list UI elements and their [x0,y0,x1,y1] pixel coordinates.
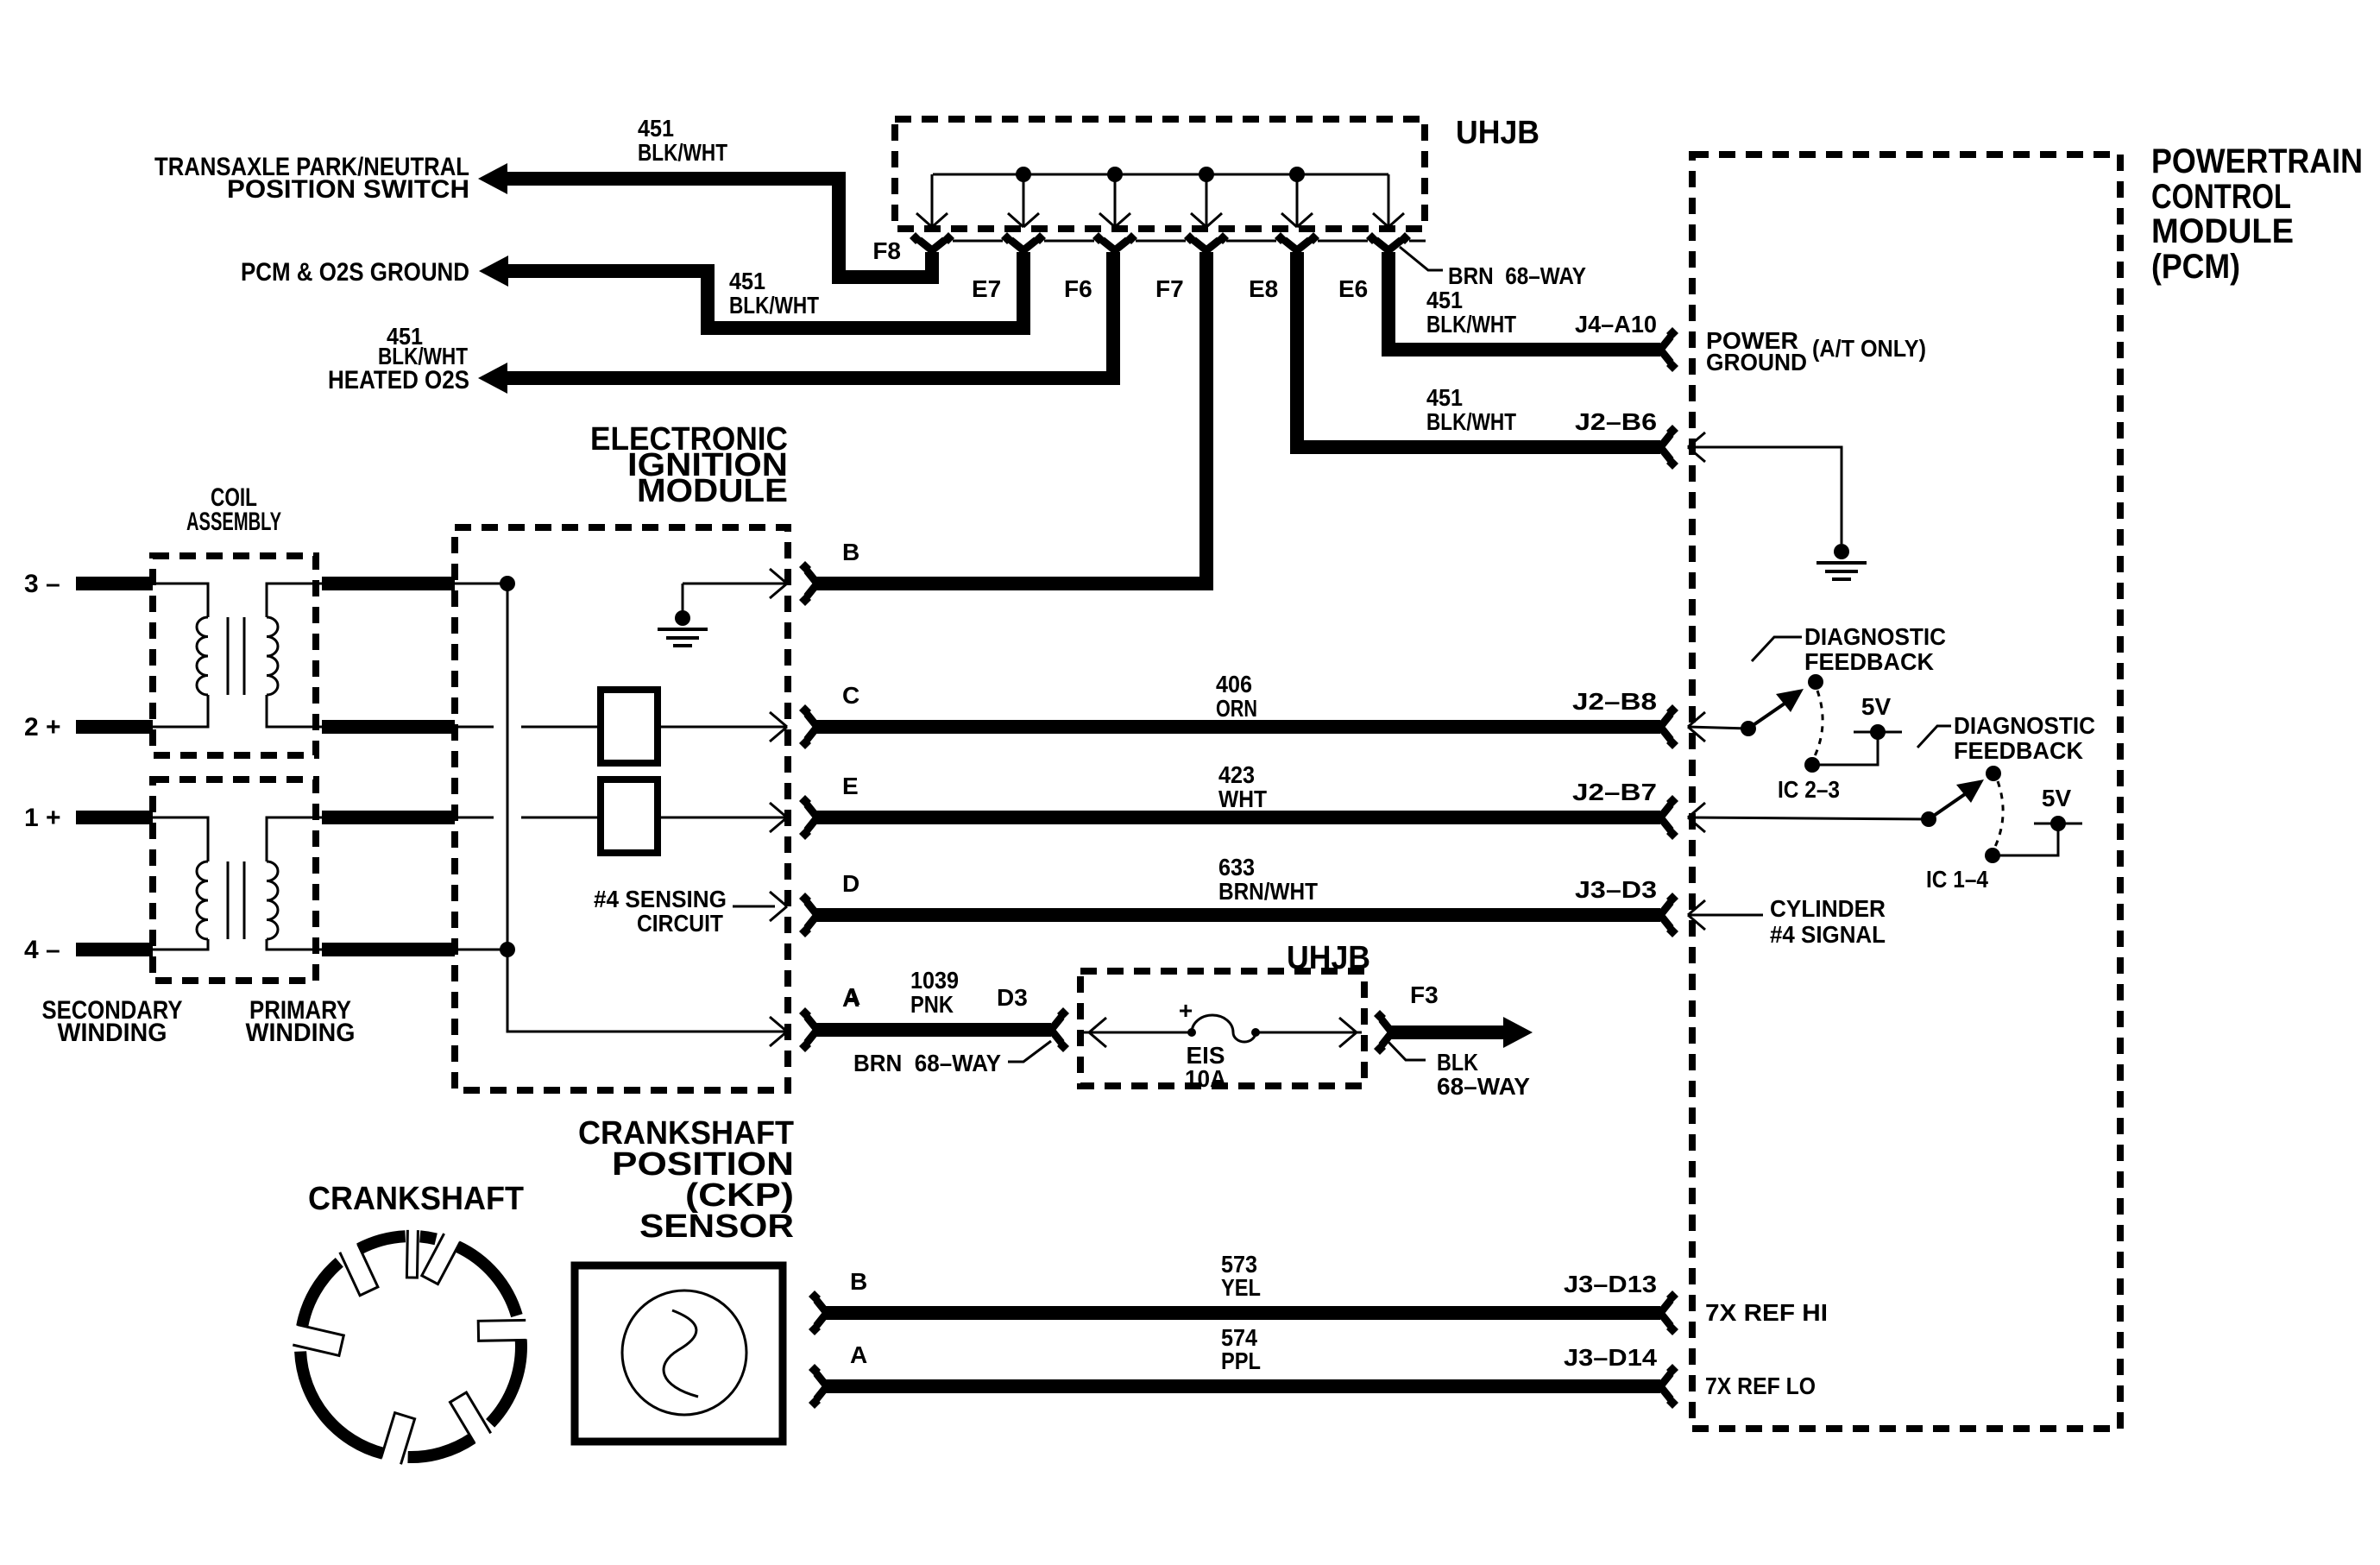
svg-text:WINDING: WINDING [58,1019,167,1047]
connector terminal F7 [1184,232,1229,250]
svg-text:#4 SENSING: #4 SENSING [594,886,727,912]
svg-text:UHJB: UHJB [1456,115,1539,151]
switch IC 2-3 pivot [1741,721,1756,736]
svg-text:HEATED O2S: HEATED O2S [328,366,469,394]
label IC 1-4 [1926,866,1988,893]
pin label B (EIM) [842,539,859,565]
pin label A (EIM) [842,985,859,1012]
connector terminal E6 [1366,232,1411,250]
svg-text:451: 451 [1426,384,1463,411]
label 7X REF HI [1705,1299,1828,1326]
pin label B (CKP) [850,1268,867,1295]
label D3 (UHJB cavity) [997,984,1028,1011]
connector dashed line BRN 68-WAY [953,240,1426,243]
svg-text:CIRCUIT: CIRCUIT [637,910,723,937]
switch IC 1-4 arm [1929,779,1984,819]
svg-text:5V: 5V [1861,693,1892,720]
svg-text:2 +: 2 + [24,713,61,741]
svg-text:BRN/WHT: BRN/WHT [1218,878,1318,905]
connector terminal E8 [1275,232,1319,250]
svg-text:B: B [850,1268,867,1295]
coil assembly dashed box (coil 1) [153,556,316,755]
svg-text:1039: 1039 [910,967,959,994]
label DIAGNOSTIC FEEDBACK (IC 2-3) [1804,623,1946,675]
pin label A (CKP) [850,1341,867,1368]
arrow at EIM pin E [770,803,787,832]
wire stub 4- left [76,943,153,956]
svg-text:J2–B7: J2–B7 [1572,779,1657,805]
transformer T2 primary winding [267,817,322,950]
powertrain control module PCM dashed box [1692,155,2120,1429]
wire driver 2 to pin E [658,817,785,819]
svg-text:J3–D3: J3–D3 [1575,876,1657,903]
terminal EIM pin C [799,704,817,749]
label CRANKSHAFT [308,1181,524,1217]
svg-text:633: 633 [1218,854,1255,880]
coil assembly dashed box (coil 2) [153,779,316,981]
switch IC 1-4 upper contact [1986,766,2001,781]
pin label F8 [872,237,901,264]
arrow at EIM pin D [770,892,787,921]
node junction on 3- row [500,576,515,591]
pin label J2-B8 [1572,688,1657,715]
wire 633 BRN/WHT D to J3-D3 [815,908,1660,922]
transformer T2 core [228,861,244,939]
wire 451 BLK/WHT E8 to J2-B6 [1297,252,1660,447]
label 574 PPL [1221,1324,1261,1374]
transformer T2 secondary winding [153,817,208,950]
label POWERTRAIN CONTROL MODULE (PCM) [2151,142,2363,286]
label SECONDARY WINDING [42,996,183,1047]
junction block UHJB (fuse) dashed box [1080,971,1364,1086]
svg-text:68–WAY: 68–WAY [1437,1073,1530,1100]
arrow into PCM at J2-B8 [1688,712,1705,741]
label 1039 PNK [910,967,959,1018]
svg-text:CRANKSHAFT: CRANKSHAFT [308,1181,524,1217]
label + (fuse) [1179,997,1193,1024]
switch IC 1-4 pivot [1921,811,1936,827]
wire to diagnostic switch IC 2-3 [1688,727,1748,729]
svg-text:(A/T ONLY): (A/T ONLY) [1812,335,1926,362]
arrowhead to transaxle park/neutral position switch [478,163,507,194]
label COIL ASSEMBLY [186,483,281,536]
wire EIM internal ground to pin B [683,584,785,610]
arrowhead F3 output [1503,1017,1533,1048]
terminal EIM pin D [799,893,817,937]
label terminal 1 + [24,804,61,832]
arrow at EIM pin C [770,712,787,741]
leader to BLK 68-WAY label [1386,1039,1426,1060]
switch IC 2-3 dashed arc [1814,691,1823,758]
label 451 BLK/WHT (heated o2s wire) [378,323,468,369]
label POWER GROUND [1706,327,1807,375]
leader diagnostic feedback (IC 2-3) [1752,637,1802,661]
svg-text:4 –: 4 – [24,936,60,964]
svg-text:F7: F7 [1155,275,1184,302]
arrow at EIM pin B [770,569,787,598]
svg-text:GROUND: GROUND [1706,349,1807,375]
wire stub 3- left [76,577,153,590]
svg-text:BLK: BLK [1437,1049,1478,1076]
svg-text:7X REF LO: 7X REF LO [1705,1373,1816,1399]
svg-text:F3: F3 [1410,981,1439,1008]
svg-text:J3–D13: J3–D13 [1564,1271,1657,1297]
wire driver 1 to pin C [658,726,785,729]
wire stub 3- right [322,577,455,590]
crankshaft reluctor ring [293,1230,526,1464]
switch IC 2-3 arm [1748,689,1804,729]
svg-text:406: 406 [1216,671,1252,697]
terminal CKP pin A [809,1364,827,1409]
leader cylinder #4 signal [1688,914,1763,917]
pin label E (EIM) [842,773,859,799]
terminal D3 at UHJB [1051,1007,1069,1052]
svg-text:BRN 68–WAY: BRN 68–WAY [853,1050,1001,1076]
svg-text:A: A [843,983,860,1010]
svg-text:B: B [842,539,859,565]
wire - UHJB internal bus [933,174,1388,176]
ground (PCM internal) [1816,544,1867,579]
crankshaft position CKP sensor box [575,1265,783,1442]
pin label J3-D13 [1564,1271,1657,1297]
svg-text:1 +: 1 + [24,804,61,832]
wire 451 BLK/WHT E6 to J4-A10 [1388,252,1660,350]
wire 406 ORN C to J2-B8 [815,720,1660,734]
wire lower contact to 5V (IC 1-4) [1993,827,2058,855]
svg-text:CYLINDER: CYLINDER [1770,895,1886,922]
label 5V (IC 1-4) [2042,785,2072,811]
label 633 BRN/WHT [1218,854,1318,905]
svg-text:BLK/WHT: BLK/WHT [1426,311,1516,338]
pin label E6 [1338,275,1368,302]
svg-text:J3–D14: J3–D14 [1564,1344,1657,1371]
leader diagnostic feedback (IC 1-4) [1917,726,1951,748]
terminal J2-B7 at PCM [1660,795,1678,840]
terminal J2-B8 at PCM [1660,704,1678,749]
arrowhead to heated O2S [478,363,507,394]
label PRIMARY WINDING [246,996,356,1047]
wire 4- into EIM to bus junction [455,949,507,951]
wire fuse box left lead [1084,1032,1188,1034]
svg-text:MODULE: MODULE [637,473,788,509]
wire 451 BLK/WHT to transaxle switch [506,179,932,277]
connector terminal E7 [1001,232,1046,250]
wire 1039 PNK A to D3 [815,1023,1051,1037]
pin label J3-D14 [1564,1344,1657,1371]
label (A/T ONLY) [1812,335,1926,362]
label 406 ORN [1216,671,1257,722]
svg-text:J2–B8: J2–B8 [1572,688,1657,715]
svg-text:BLK/WHT: BLK/WHT [378,343,468,369]
svg-text:J4–A10: J4–A10 [1575,311,1657,338]
pin label J3-D3 [1575,876,1657,903]
svg-text:(PCM): (PCM) [2151,248,2240,286]
pin label E8 [1249,275,1278,302]
svg-text:PCM & O2S GROUND: PCM & O2S GROUND [241,258,469,287]
arrow into PCM at J2-B6 [1688,432,1705,462]
fuse element EIS 10A [1187,1015,1260,1042]
UHJB bus tap arrow to E7 [1008,167,1039,227]
label TRANSAXLE PARK/NEUTRAL POSITION SWITCH [154,153,469,204]
driver block 2 [601,779,658,853]
label 573 YEL [1221,1251,1261,1301]
label BRN 68-WAY (bottom) [853,1050,1001,1076]
label EIS 10A [1185,1042,1226,1092]
label CRANKSHAFT POSITION (CKP) SENSOR [578,1115,794,1245]
svg-text:3 –: 3 – [24,570,60,598]
wire EIM internal bus vertical [507,584,787,1032]
arrow into fuse box left [1089,1018,1106,1047]
pin label E7 [972,275,1001,302]
svg-text:F6: F6 [1064,275,1092,302]
wire stub 2+ left [76,720,153,734]
pin label C (EIM) [842,682,859,709]
svg-text:FEEDBACK: FEEDBACK [1804,648,1934,675]
5V rail (IC 1-4) [2034,823,2082,825]
svg-text:#4 SIGNAL: #4 SIGNAL [1770,921,1886,948]
wire lower contact to 5V (IC 2-3) [1812,735,1878,765]
wire to diagnostic switch IC 1-4 [1688,817,1929,819]
svg-text:YEL: YEL [1221,1274,1261,1301]
switch IC 1-4 lower contact [1985,848,2000,863]
terminal J3-D13 at PCM [1660,1290,1678,1335]
UHJB bus tap arrow to F7 [1191,167,1222,227]
label CYLINDER #4 SIGNAL [1770,895,1886,948]
svg-text:E7: E7 [972,275,1001,302]
label UHJB (top) [1456,115,1539,151]
svg-text:FEEDBACK: FEEDBACK [1954,737,2083,764]
arrow out fuse box right [1339,1018,1357,1047]
wire 451 BLK/WHT to PCM & O2S ground [507,252,1023,328]
pin label F3 [1410,981,1439,1008]
wire stub 2+ right [322,720,455,734]
svg-text:5V: 5V [2042,785,2072,811]
terminal J3-D14 at PCM [1660,1364,1678,1409]
wire 3- into EIM to bus junction [455,583,507,585]
transformer T1 secondary winding [153,584,208,727]
svg-text:DIAGNOSTIC: DIAGNOSTIC [1804,623,1946,650]
arrowhead to PCM & O2S ground [479,256,508,287]
wire F3 BLK 68-WAY [1390,1025,1503,1039]
node junction on 4- row [500,942,515,957]
label terminal 3 - [24,570,60,598]
svg-text:DIAGNOSTIC: DIAGNOSTIC [1954,712,2095,739]
svg-text:UHJB: UHJB [1287,940,1370,976]
wire stub 1+ left [76,811,153,824]
label 451 BLK/WHT (pcm o2s wire) [729,268,819,319]
UHJB bus tap arrow to F8 [916,174,948,227]
svg-text:PNK: PNK [910,991,954,1018]
label 451 BLK/WHT (J4-A10 wire) [1426,287,1516,338]
svg-text:423: 423 [1218,761,1255,788]
node 5V (IC 1-4) [2050,816,2066,831]
UHJB bus tap arrow to F6 [1099,167,1130,227]
svg-text:IC 1–4: IC 1–4 [1926,866,1988,893]
wire 451 BLK/WHT to heated O2S [506,252,1113,378]
pin label J2-B6 [1575,408,1657,435]
label 451 BLK/WHT (transaxle wire) [638,115,727,166]
svg-text:E6: E6 [1338,275,1368,302]
wire 573 YEL to J3-D13 [825,1306,1660,1320]
terminal F3 at UHJB [1374,1010,1392,1055]
wire stub 4- right [322,943,455,956]
label terminal 4 - [24,936,60,964]
svg-text:D3: D3 [997,984,1028,1011]
arrow into PCM at J3-D3 [1688,900,1705,930]
svg-text:MODULE: MODULE [2151,212,2294,250]
wire 2+ to driver 1 (gap at bus) [455,726,601,729]
svg-text:BLK/WHT: BLK/WHT [1426,408,1516,435]
svg-text:BLK/WHT: BLK/WHT [638,139,727,166]
terminal J4-A10 at PCM [1660,327,1678,372]
svg-text:451: 451 [729,268,765,294]
label 5V (IC 2-3) [1861,693,1892,720]
label IC 2-3 [1778,776,1840,803]
terminal EIM pin E [799,795,817,840]
pin label D (EIM) [842,870,859,897]
label #4 SENSING CIRCUIT [594,886,727,937]
label terminal 2 + [24,713,61,741]
label 423 WHT [1218,761,1267,812]
electronic ignition module dashed box [455,527,788,1090]
CKP sensor squiggle [664,1310,698,1397]
svg-text:+: + [1179,997,1193,1024]
svg-text:E8: E8 [1249,275,1278,302]
svg-text:ORN: ORN [1216,695,1257,722]
label 451 BLK/WHT (J2-B6 wire) [1426,384,1516,435]
svg-text:IC 2–3: IC 2–3 [1778,776,1840,803]
svg-text:POSITION SWITCH: POSITION SWITCH [227,175,469,204]
pin label F7 [1155,275,1184,302]
pin label F6 [1064,275,1092,302]
connector terminal F6 [1092,232,1137,250]
svg-text:ASSEMBLY: ASSEMBLY [186,508,281,536]
label UHJB (fuse box) [1287,940,1370,976]
terminal J3-D3 at PCM [1660,893,1678,937]
5V rail (IC 2-3) [1854,731,1902,734]
wire 451 BLK/WHT F7 to EIM pin B [815,252,1206,584]
svg-text:F8: F8 [872,237,901,264]
switch IC 1-4 dashed arc [1994,781,2003,849]
label HEATED O2S [328,366,469,394]
arrow into PCM at J2-B7 [1688,803,1705,832]
transformer T1 core [228,617,244,695]
svg-text:451: 451 [638,115,674,142]
svg-text:D: D [842,870,859,897]
CKP sensor symbol circle [622,1290,746,1415]
wire stub 1+ right [322,811,455,824]
svg-text:CONTROL: CONTROL [2151,178,2291,216]
transformer T1 primary winding [267,584,322,727]
label BRN 68-WAY (top connector) [1448,262,1586,289]
wire 1+ to driver 2 (gap at bus) [455,817,601,819]
terminal CKP pin B [809,1290,827,1335]
wire 574 PPL to J3-D14 [825,1379,1660,1393]
switch IC 2-3 upper contact [1808,674,1823,690]
label DIAGNOSTIC FEEDBACK (IC 1-4) [1954,712,2095,764]
wire fuse box right lead [1256,1032,1362,1034]
svg-text:J2–B6: J2–B6 [1575,408,1657,435]
terminal J2-B6 at PCM [1660,425,1678,470]
svg-text:BRN 68–WAY: BRN 68–WAY [1448,262,1586,289]
svg-text:BLK/WHT: BLK/WHT [729,292,819,319]
wire J2-B6 to internal ground [1688,447,1842,544]
label PCM & O2S GROUND [241,258,469,287]
svg-text:SENSOR: SENSOR [639,1208,794,1245]
wire 423 WHT E to J2-B7 [815,811,1660,824]
svg-text:C: C [842,682,859,709]
svg-text:E: E [842,773,859,799]
svg-text:10A: 10A [1185,1065,1226,1092]
terminal EIM pin B [799,561,817,606]
svg-text:451: 451 [1426,287,1463,313]
ground (EIM internal) [658,610,708,646]
switch IC 2-3 lower contact [1804,757,1820,773]
connector terminal F8 [910,232,954,250]
pin label J4-A10 [1575,311,1657,338]
svg-text:WINDING: WINDING [246,1019,356,1047]
label ELECTRONIC IGNITION MODULE [590,421,788,509]
pin label J2-B7 [1572,779,1657,805]
svg-text:POWERTRAIN: POWERTRAIN [2151,142,2363,180]
svg-text:WHT: WHT [1218,786,1267,812]
leader #4 sensing circuit to pin D [733,906,775,908]
leader to BRN 68-WAY label [1400,247,1443,270]
UHJB bus tap arrow to E8 [1281,167,1313,227]
svg-text:7X REF HI: 7X REF HI [1705,1299,1828,1326]
label BLK 68-WAY [1437,1049,1530,1100]
label A pin wire [843,983,860,1010]
svg-text:PPL: PPL [1221,1347,1261,1374]
terminal EIM pin A [799,1007,817,1052]
junction block UHJB (top) dashed box [895,119,1425,229]
node 5V (IC 2-3) [1870,724,1886,740]
svg-text:A: A [850,1341,867,1368]
UHJB bus tap arrow to E6 [1373,174,1404,227]
leader to BRN 68-WAY label (bottom) [1008,1041,1051,1062]
label 7X REF LO [1705,1373,1816,1399]
arrow at EIM pin A [770,1017,787,1046]
driver block 1 [601,690,658,763]
